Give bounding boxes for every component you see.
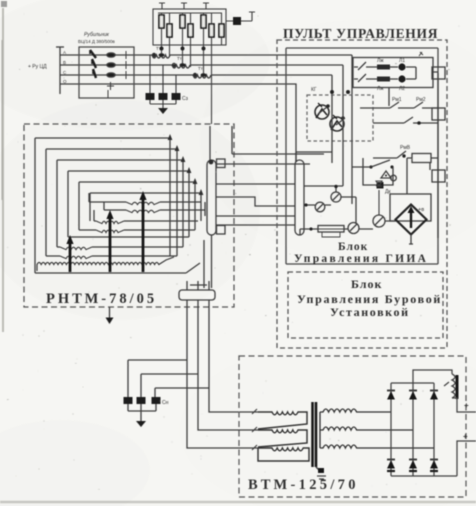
svg-text:Установкой: Установкой: [330, 305, 410, 319]
svg-text:Блок: Блок: [351, 277, 382, 291]
svg-text:Управления Буровой: Управления Буровой: [297, 292, 442, 306]
svg-text:Сн: Сн: [162, 400, 169, 406]
